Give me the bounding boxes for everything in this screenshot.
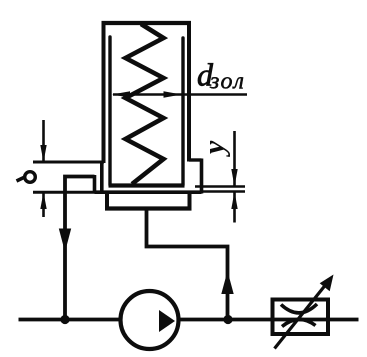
throttle upper arc	[281, 304, 317, 313]
dimension b bottom extension line	[33, 191, 95, 194]
valve body step line	[95, 190, 202, 194]
spool seat line	[109, 183, 185, 187]
dimension d_zol double arrow line	[113, 93, 247, 96]
dimension y line upper segment	[233, 131, 236, 187]
dimension b line upper segment	[42, 120, 45, 162]
dimension y bottom extension line	[202, 190, 246, 193]
junction node right	[223, 315, 232, 324]
d_zol right arrowhead	[164, 91, 182, 97]
spring	[126, 24, 164, 184]
valve left port wall	[93, 175, 97, 194]
svg-text:зол: зол	[209, 69, 245, 95]
valve sleeve right wall	[187, 21, 191, 162]
dimension y upper arrowhead	[231, 169, 237, 187]
pipe from flange bottom to main line	[147, 209, 228, 320]
dimension y top extension line	[195, 185, 245, 188]
throttle adjustment arrowhead	[320, 275, 334, 292]
label b	[17, 172, 36, 183]
dimension b top extension line	[33, 161, 104, 164]
d_zol left arrowhead	[112, 91, 130, 97]
dimension y lower arrowhead	[231, 192, 237, 210]
throttle lower arc	[282, 319, 316, 326]
valve sleeve left lower wall	[100, 161, 104, 194]
spool bore right inner line	[181, 38, 184, 185]
valve right port step	[189, 158, 202, 161]
valve sleeve top wall	[102, 21, 192, 25]
svg-text:y: y	[198, 140, 231, 157]
throttle adjustment arrow shaft	[275, 286, 326, 349]
valve right port wall	[200, 159, 204, 194]
flow arrow up on right pipe	[221, 271, 233, 294]
spool bore left inner line	[108, 37, 111, 185]
throttle box	[273, 300, 329, 335]
pump triangle	[159, 310, 175, 332]
dimension b upper arrowhead	[40, 145, 46, 162]
valve sleeve left wall	[102, 21, 106, 163]
flange left wall	[105, 192, 109, 210]
flange right wall	[188, 192, 192, 210]
dimension b lower arrowhead	[40, 192, 46, 209]
main pipe line	[19, 318, 359, 322]
flow arrow down on left pipe	[59, 229, 71, 253]
pump circle	[121, 291, 179, 349]
junction node left	[60, 315, 69, 324]
dimension y line lower segment	[233, 192, 236, 223]
pipe from left port	[65, 177, 95, 320]
dimension b line lower segment	[42, 192, 45, 217]
flange bottom	[105, 206, 192, 210]
